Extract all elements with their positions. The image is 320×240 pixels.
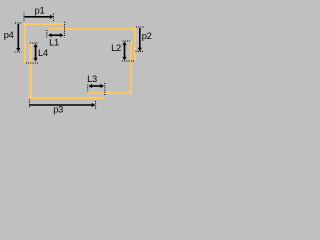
svg-text:L3: L3	[87, 74, 97, 84]
svg-text:p3: p3	[53, 105, 63, 115]
wire bottom lower segment (piece 4 horizontal)	[29, 97, 105, 99]
svg-text:L4: L4	[38, 48, 48, 58]
dimension L2	[122, 41, 134, 61]
wire bottom upper segment (piece 3 horizontal)	[88, 92, 132, 94]
wire top inner segment (piece 2 horizontal)	[48, 28, 137, 30]
dimension p4	[15, 23, 23, 52]
svg-text:p2: p2	[142, 31, 152, 41]
dimension L3	[88, 83, 105, 96]
dimension L1	[47, 22, 65, 38]
wire top outer segment (piece 1 horizontal)	[24, 23, 64, 25]
svg-text:p4: p4	[4, 30, 14, 40]
dimension p1	[24, 14, 54, 23]
wire right inner vertical (piece 3)	[130, 41, 132, 94]
spiral trace parameter diagram	[0, 0, 160, 122]
wire left outer vertical (piece 1)	[24, 23, 26, 63]
wire left inner vertical (piece 4)	[29, 43, 32, 99]
dimension L4	[26, 43, 39, 63]
svg-text:L1: L1	[49, 38, 59, 48]
wire right outer vertical (piece 2)	[134, 28, 136, 62]
dimension p3	[30, 100, 96, 110]
dimension p2	[136, 27, 145, 51]
svg-text:L2: L2	[111, 43, 121, 53]
svg-text:p1: p1	[35, 5, 45, 15]
